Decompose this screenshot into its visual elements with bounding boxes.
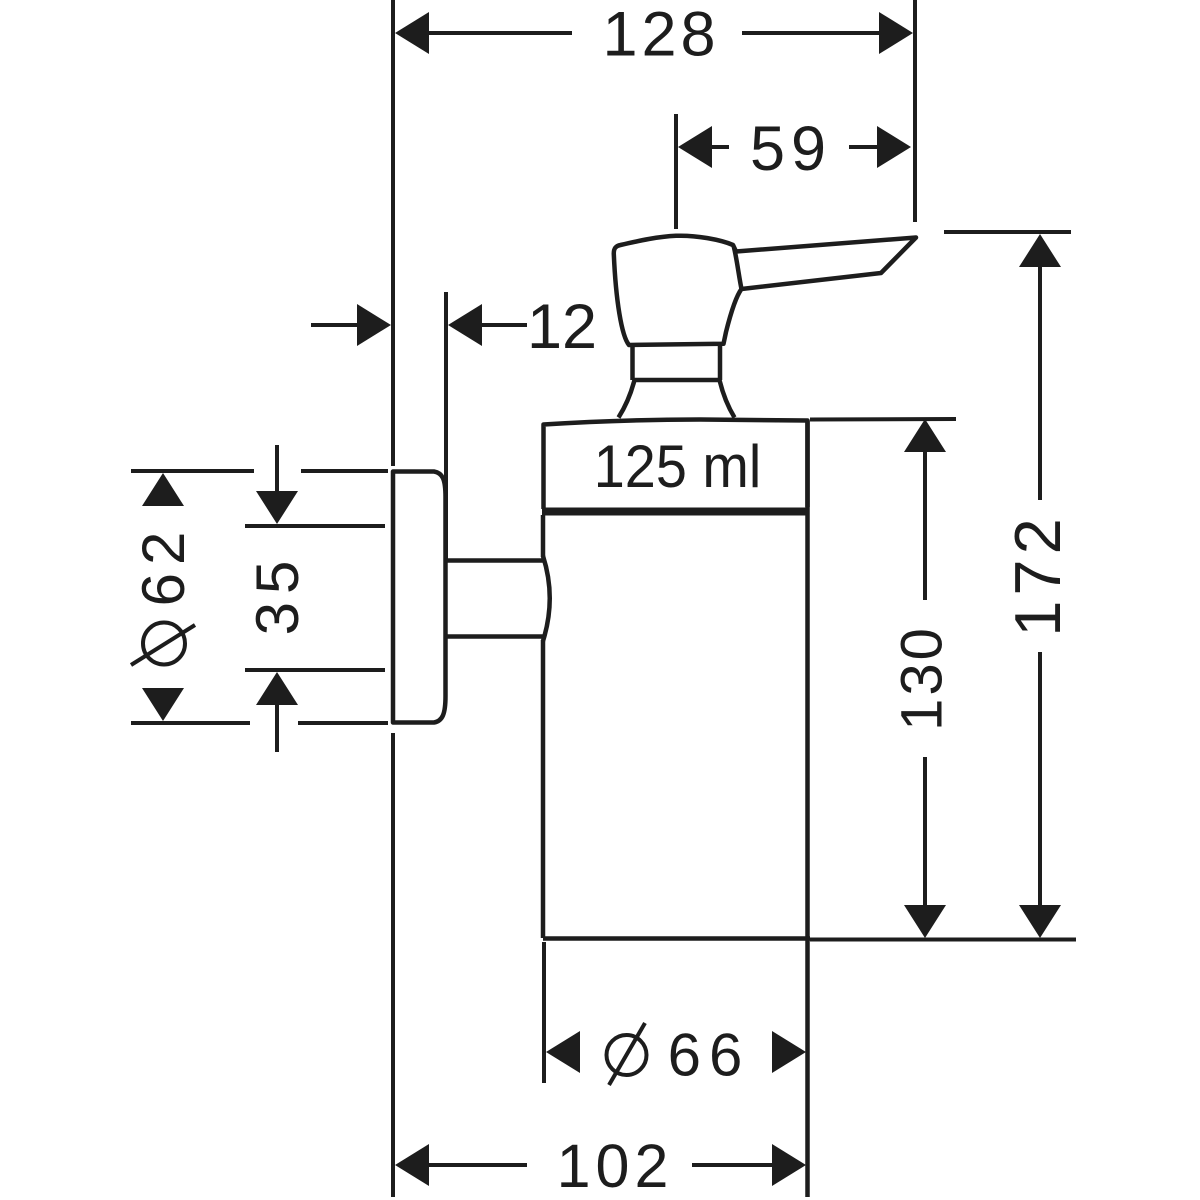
svg-text:35: 35 — [244, 553, 311, 636]
svg-text:66: 66 — [668, 1022, 751, 1089]
svg-text:128: 128 — [602, 0, 719, 70]
svg-text:102: 102 — [557, 1132, 674, 1200]
svg-text:130: 130 — [890, 625, 955, 731]
svg-text:172: 172 — [1001, 513, 1074, 636]
svg-text:12: 12 — [527, 292, 597, 362]
svg-text:62: 62 — [130, 524, 197, 607]
svg-text:59: 59 — [750, 114, 832, 184]
svg-text:125 ml: 125 ml — [594, 434, 761, 500]
